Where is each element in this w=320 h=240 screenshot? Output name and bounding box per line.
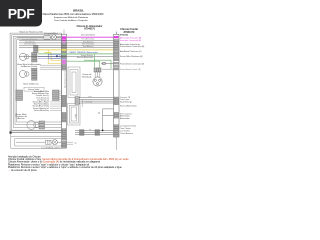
wire loop 2	[12, 35, 62, 131]
motor M3 label	[15, 113, 27, 120]
right strip magenta cell	[114, 36, 119, 38]
connector box B2	[46, 140, 52, 144]
svg-text:Cinza: Cinza	[97, 68, 101, 70]
wire green left	[38, 53, 62, 55]
strip stem	[63, 30, 65, 35]
wire stubs right of strip bottom	[67, 141, 74, 143]
svg-text:Chicote do Alimentador: Chicote do Alimentador	[77, 25, 103, 28]
wire row 103	[79, 102, 113, 104]
gray wire into strip row 69	[102, 68, 114, 70]
junction dot bottom-left	[10, 132, 12, 134]
wire yellow loop inner	[44, 52, 62, 60]
wire row 99	[79, 98, 113, 100]
motor M1 circles	[19, 53, 29, 60]
lamp L1 (circle with X)	[51, 35, 56, 40]
loop B1	[68, 103, 81, 125]
wire green vertical 1	[94, 54, 96, 68]
wire loop 3	[13, 36, 61, 127]
right labels block3	[120, 112, 132, 120]
right strip cells top	[114, 40, 119, 71]
motor M2 circles	[19, 70, 29, 77]
motor M2 terminal stack	[32, 68, 38, 80]
svg-text:Luz Re (g): Luz Re (g)	[85, 102, 93, 104]
plug block P1	[80, 130, 85, 136]
wire dark row 1	[19, 39, 114, 41]
pin cell magenta 2	[62, 39, 66, 41]
pin cells gray section 112-122	[62, 112, 66, 122]
small wire labels above lower rows	[85, 96, 93, 131]
right strip rails	[114, 34, 120, 137]
pin cell orchid	[62, 60, 66, 64]
header Chicote do Alimentador	[77, 25, 103, 31]
plug block P2	[95, 130, 100, 136]
pin cell gray	[62, 51, 66, 53]
wire dark row 2	[19, 42, 114, 44]
svg-text:Sinal Motor (g): Sinal Motor (g)	[120, 101, 132, 104]
round connector J1	[93, 77, 102, 86]
pin label list inside module	[32, 90, 50, 112]
bottom loop inner	[15, 139, 67, 146]
svg-text:Alimentador: Alimentador	[120, 117, 130, 120]
svg-text:PDF: PDF	[8, 6, 35, 22]
svg-text:Placa Plataformas 2500 com ali: Placa Plataformas 2500 com alimentadores…	[43, 13, 104, 16]
svg-text:Abrir/Alaval Plataforma (C): Abrir/Alaval Plataforma (C)	[120, 50, 142, 53]
svg-text:Para Controle de Altura e Porq: Para Controle de Altura e Porquinho	[54, 19, 88, 22]
wire stub lower	[103, 114, 114, 116]
blue highlight box	[48, 54, 60, 58]
wire row 101	[79, 100, 113, 102]
svg-text:luz: luz	[89, 129, 91, 131]
wire green drop 1	[67, 53, 95, 55]
pin cells gray top	[62, 44, 66, 49]
pin cells gray section 128-140	[62, 129, 66, 141]
wire green branch box	[84, 60, 111, 68]
wire drop from block	[82, 100, 84, 107]
svg-text:Interruptor Construção (A): Interruptor Construção (A)	[120, 39, 141, 42]
svg-text:Velocidade: Velocidade	[82, 76, 93, 78]
lamp L2 (circle with X)	[52, 140, 57, 145]
svg-text:Lâmpada/Motor: Lâmpada/Motor	[44, 32, 58, 35]
wire stub upper	[103, 108, 114, 110]
pin cell magenta 1	[62, 36, 66, 39]
svg-text:HT046170: HT046170	[84, 28, 95, 31]
connector pins wires	[95, 72, 100, 78]
svg-text:Abertura Alimentador: Abertura Alimentador	[77, 56, 93, 59]
wire row 134.5	[75, 134, 114, 136]
wire row 130.4	[75, 129, 114, 131]
wire yellow loop outer	[48, 50, 61, 64]
junction dot right	[102, 130, 104, 132]
svg-text:Potenciômetro Construção (B): Potenciômetro Construção (B)	[120, 63, 145, 66]
wire violet left	[38, 58, 62, 60]
wire row 97	[79, 97, 113, 99]
svg-text:Esquema com Módulo de Platafor: Esquema com Módulo de Plataforma	[54, 16, 89, 19]
wire loop 4	[15, 38, 62, 125]
wire from junction to bottom loop	[10, 133, 12, 137]
right strip stem up	[115, 32, 117, 35]
wire vertical to junction	[102, 109, 104, 130]
wire below right strip	[115, 137, 117, 150]
wire dark w/ component	[101, 62, 114, 64]
svg-text:Sensor Altura Esq.: Sensor Altura Esq.	[34, 109, 49, 112]
loop A2	[70, 70, 78, 96]
svg-text:Alimentador Interruptor (A): Alimentador Interruptor (A)	[120, 36, 142, 39]
right labels block4	[120, 124, 136, 135]
svg-text:→ de conector de 24 pinos.: → de conector de 24 pinos.	[8, 169, 38, 172]
diode component	[103, 62, 106, 64]
wire loop 1 (outermost)	[10, 33, 62, 132]
svg-text:Sensor Milho Plataforma (B): Sensor Milho Plataforma (B)	[120, 55, 143, 58]
wire rows to loops	[40, 65, 62, 69]
wire to lamp	[17, 36, 62, 38]
boxed label sensor	[24, 87, 44, 91]
pin cell pink	[62, 42, 66, 44]
right labels lower block2	[120, 96, 137, 107]
wire row 132.6	[75, 132, 114, 134]
svg-text:CHASSI TRASEIRO Alimentador: CHASSI TRASEIRO Alimentador	[69, 51, 99, 54]
bottom loop outer	[11, 136, 67, 148]
wire dark row 56	[19, 55, 114, 57]
loop B2	[69, 105, 78, 123]
pin cells column right	[53, 90, 60, 101]
wire loop 5 (innermost)	[17, 40, 62, 122]
svg-text:Terra Alimentador: Terra Alimentador	[81, 38, 95, 41]
svg-text:Abertura: Abertura	[17, 117, 25, 120]
wire dark row 4	[19, 46, 114, 48]
motor M3 connector block	[39, 121, 45, 129]
svg-text:de Abertura (frente): de Abertura (frente)	[21, 65, 38, 68]
pin cells gray section 95-108	[62, 95, 66, 107]
right strip cells block2	[114, 97, 119, 105]
wire bottom pair to strip	[11, 130, 62, 132]
svg-text:Reservo Alimentador: Reservo Alimentador	[120, 104, 137, 107]
pin cells column left	[16, 90, 23, 101]
right strip cells block3	[114, 112, 119, 118]
junction dot blue	[56, 55, 58, 57]
loop B3	[71, 107, 77, 121]
svg-text:87051342: 87051342	[120, 33, 128, 36]
wire green to right strip	[67, 53, 114, 55]
pin cells gray 64-70	[62, 64, 66, 70]
motor M3 circles	[27, 121, 39, 130]
wire blue left	[38, 55, 62, 57]
connector box B1	[44, 35, 50, 39]
svg-text:Motor de Abertura: Motor de Abertura	[23, 83, 39, 86]
wire stubs cells to strip	[50, 91, 62, 110]
strip rails	[62, 34, 67, 147]
svg-text:BRASIL: BRASIL	[73, 8, 84, 12]
loop A3	[72, 72, 76, 93]
svg-text:Potenciômetro Constr. (B): Potenciômetro Constr. (B)	[120, 68, 141, 71]
svg-text:(A): (A)	[98, 112, 101, 115]
connector block 3pin	[94, 68, 101, 72]
svg-text:Conector Módulo 24p: Conector Módulo 24p	[64, 71, 67, 88]
header Chicote Frontal	[120, 28, 138, 34]
wire magenta	[67, 36, 114, 38]
pin cell green	[62, 53, 66, 55]
connector block 4pin	[75, 97, 79, 105]
wire dark row 3	[19, 44, 114, 46]
right strip cells block4	[114, 125, 119, 137]
svg-text:Chave Alavanca: Chave Alavanca	[120, 132, 133, 135]
wire green lower	[67, 61, 100, 70]
pin cell yellow	[62, 49, 66, 51]
svg-text:Sinal Velocidade: Sinal Velocidade	[24, 44, 36, 46]
svg-text:Potenciômetro Construção (A): Potenciômetro Construção (A)	[120, 45, 145, 48]
terminal stack T0	[34, 45, 39, 52]
wire yellow left	[38, 49, 62, 51]
wire yellow right	[67, 49, 114, 51]
pin cells gray bottom	[62, 141, 66, 147]
svg-text:Módulo da Plataforma 2500: Módulo da Plataforma 2500	[19, 31, 42, 34]
svg-text:Luz Girofléx/Lanterna: Luz Girofléx/Lanterna	[41, 147, 61, 150]
connector J1 label	[82, 74, 93, 78]
svg-text:Interruptor/Motor: Interruptor/Motor	[81, 34, 95, 37]
pin cell violet wire row	[62, 58, 66, 59]
motor M1 terminal stack	[32, 52, 38, 62]
loop A1	[68, 67, 80, 98]
pin cells gray mid	[62, 55, 66, 58]
wire to lamp bottom	[16, 141, 62, 143]
page background	[0, 0, 149, 198]
